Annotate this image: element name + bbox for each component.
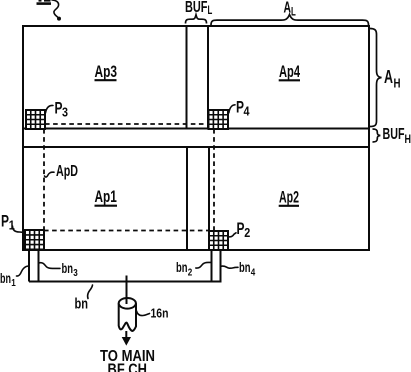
crosshatch pad P1 (25, 230, 44, 250)
brace BUF_H (373, 129, 381, 142)
svg-text:3: 3 (62, 105, 68, 120)
svg-text:2: 2 (188, 267, 193, 279)
svg-text:A: A (384, 67, 393, 87)
horizontal line: bottom of top row (23, 128, 369, 130)
dashed line P4-P2 (213, 129, 215, 231)
leader bn3 (40, 263, 61, 269)
brace A_L (211, 15, 369, 25)
label BUF_H (383, 126, 411, 146)
svg-text:1: 1 (11, 277, 16, 289)
leader bn2 (196, 262, 211, 268)
vertical line: Ap1 right edge (186, 147, 188, 250)
bn strip right end vertical (220, 250, 222, 282)
svg-text:Ap4: Ap4 (279, 63, 301, 81)
horizontal line: top of bottom row (23, 146, 369, 148)
svg-text:P: P (1, 212, 9, 231)
leader ApD (45, 172, 55, 177)
svg-text:bn: bn (62, 260, 74, 276)
svg-text:2: 2 (244, 225, 250, 240)
label bn4 (239, 259, 255, 279)
svg-text:BUF: BUF (185, 0, 208, 16)
svg-text:L: L (208, 3, 213, 17)
svg-text:bn: bn (176, 259, 188, 275)
brace A_H (370, 29, 382, 127)
leader P4 (229, 105, 235, 113)
figure leader squiggle with dot (52, 0, 61, 21)
crosshatch pad P4 (209, 110, 229, 129)
bn strip left end vertical (28, 250, 30, 282)
brace BUF_L (186, 15, 207, 24)
dashed line P3-P1 (43, 129, 45, 230)
leader P1 (13, 226, 25, 232)
crosshatch pad P3 (26, 110, 45, 129)
vertical line: BUF_L strip left (top row) (186, 26, 188, 129)
svg-text:Ap1: Ap1 (95, 188, 117, 206)
label bn2 (176, 259, 192, 279)
svg-text:bn: bn (0, 270, 11, 286)
label Ap1 underlined (95, 188, 118, 206)
arrow to main channel (122, 331, 131, 346)
label P4 (236, 98, 250, 119)
svg-text:16n: 16n (151, 306, 169, 321)
cylinder 16n (main bitline channel symbol) (119, 298, 136, 331)
leader P2 (229, 233, 236, 237)
svg-text:BF CH.: BF CH. (108, 361, 151, 372)
svg-text:4: 4 (251, 267, 256, 279)
label Ap3 underlined (95, 63, 118, 81)
bn strip right inner vertical (211, 250, 213, 282)
dashed line P3-P4 (45, 123, 209, 125)
vertical line: BUF_L strip right (top row) (207, 26, 209, 129)
outer array rectangle (23, 26, 369, 250)
svg-text:H: H (394, 75, 401, 90)
bn strip left inner vertical (38, 250, 40, 282)
label P3 (55, 99, 69, 120)
svg-text:ApD: ApD (56, 163, 78, 180)
label Ap2 underlined (279, 189, 299, 207)
wire: bn strip to cylinder (126, 276, 128, 305)
bn strip bottom line (29, 281, 222, 283)
label bn1 (0, 270, 16, 289)
svg-text:3: 3 (73, 267, 78, 279)
figure number remnant (cut off) with underline (37, 0, 52, 4)
svg-text:bn: bn (75, 297, 89, 313)
label P2 (237, 219, 251, 240)
label BUF_L (185, 0, 212, 17)
svg-text:L: L (291, 5, 296, 19)
svg-text:H: H (405, 132, 411, 146)
label A_L (284, 0, 296, 19)
leader bn4 (222, 266, 239, 268)
leader P3 (46, 105, 54, 112)
dashed line P1-P2 (44, 230, 209, 232)
svg-text:Ap2: Ap2 (279, 189, 299, 207)
svg-text:BUF: BUF (383, 126, 405, 143)
svg-text:bn: bn (239, 259, 251, 275)
leader 16n (137, 311, 150, 316)
crosshatch pad P2 (209, 231, 228, 250)
label A_H (384, 67, 401, 90)
leader bn1 (17, 266, 29, 276)
svg-text:4: 4 (244, 104, 251, 119)
label Ap4 underlined (279, 63, 301, 81)
svg-text:Ap3: Ap3 (95, 63, 118, 81)
label P1 (1, 212, 15, 233)
vertical line: Ap2 left edge (208, 147, 210, 250)
label bn3 (62, 260, 78, 279)
leader bn (88, 285, 93, 299)
